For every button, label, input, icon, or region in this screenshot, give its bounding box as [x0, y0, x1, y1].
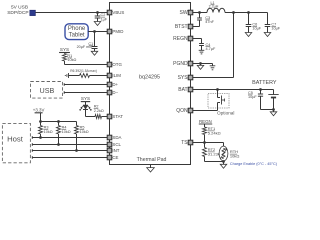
LED D1 cathode bar	[83, 109, 88, 111]
ground (ILIM, sideways)	[65, 73, 68, 78]
resistor R4 leads	[58, 122, 60, 145]
svg-text:SYS: SYS	[178, 75, 189, 81]
resistor R1 leads	[64, 53, 66, 65]
pin D- (left)	[107, 90, 112, 95]
pin TS (right)	[188, 140, 193, 145]
net SYS rail bar	[59, 52, 70, 54]
label R5 value	[80, 130, 89, 134]
resistor R3	[39, 126, 43, 135]
node C6 junction	[247, 11, 250, 14]
label C1	[88, 42, 93, 46]
pin SW (right)	[188, 10, 193, 15]
pin label REGN	[173, 36, 188, 42]
node SYS rail junction	[232, 11, 235, 14]
capacitor C1	[92, 47, 98, 49]
pin label INT	[112, 148, 119, 153]
ground (TS)	[220, 162, 227, 169]
ground (PGND bars)	[210, 64, 216, 70]
pin label SW	[180, 10, 188, 16]
node BAT/C5 junction	[259, 88, 262, 91]
svg-text:BATTERY: BATTERY	[252, 80, 277, 86]
wire BAT net	[193, 89, 274, 91]
ground (C2)	[94, 22, 101, 26]
label R3 value	[44, 130, 53, 134]
pin label SYS	[178, 75, 189, 81]
net SYS rail bar (LED)	[81, 101, 90, 103]
label BATTERY	[252, 80, 277, 86]
pin PMID (left)	[107, 29, 112, 34]
block Phone/Tablet	[65, 24, 88, 40]
pin label QON	[176, 108, 188, 114]
pushbutton S1	[218, 90, 225, 105]
net REGN label	[199, 119, 212, 124]
pin OTG (left)	[107, 62, 112, 67]
resistor R4	[57, 126, 61, 135]
wire resistor to ILIM pin	[90, 75, 108, 77]
svg-text:R6 392(1.5A max): R6 392(1.5A max)	[70, 69, 97, 73]
svg-text:BAT: BAT	[178, 87, 187, 93]
svg-text:D+: D+	[112, 82, 118, 87]
svg-text:20µF min: 20µF min	[77, 45, 92, 49]
pin label PGND	[173, 61, 188, 67]
pin label PMID	[112, 29, 123, 34]
battery BT1	[268, 90, 278, 110]
resistor R6 (RILIM)	[80, 74, 90, 78]
pin label SCL	[112, 142, 121, 147]
resistor RT1 leads	[204, 124, 206, 143]
svg-text:Tablet: Tablet	[69, 33, 85, 39]
pin label CE	[112, 155, 118, 160]
node R4/SCL	[57, 143, 60, 146]
svg-text:Thermal Pad: Thermal Pad	[137, 157, 167, 163]
capacitor C1 leads	[94, 32, 96, 52]
ground (PGND triangle)	[197, 64, 204, 70]
wire CE net	[32, 156, 107, 159]
capacitor C3	[197, 18, 202, 20]
svg-text:2.2kΩ: 2.2kΩ	[94, 109, 104, 113]
label C5 value	[248, 95, 257, 99]
pin ILIM (left)	[107, 73, 112, 78]
capacitor C6 leads	[248, 13, 250, 33]
wire battery bottom	[261, 109, 274, 111]
inductor L1	[207, 8, 225, 12]
node VBUS/C2 junction	[96, 11, 99, 14]
svg-text:SDA: SDA	[112, 135, 121, 140]
wire D- net	[64, 91, 107, 94]
wire SW net	[193, 12, 207, 14]
svg-text:Phone: Phone	[68, 26, 86, 32]
svg-text:47nF: 47nF	[205, 20, 214, 24]
svg-text:SW: SW	[180, 10, 188, 16]
pin label VBUS	[112, 10, 124, 15]
label C5	[248, 91, 253, 95]
capacitor C2	[95, 16, 101, 18]
label USB	[40, 86, 55, 95]
node R5/INT	[75, 149, 78, 152]
svg-text:10kΩ: 10kΩ	[67, 58, 76, 62]
pin label STAT	[112, 114, 123, 119]
ground (thermal pad)	[147, 168, 155, 172]
pin BTST (right)	[188, 24, 193, 29]
node rail/R3	[39, 120, 42, 123]
LED D1 triangle	[83, 105, 88, 109]
svg-text:+3.3V: +3.3V	[33, 107, 45, 112]
label C7	[271, 22, 276, 26]
node SW/C3 junction	[198, 11, 201, 14]
capacitor C4	[199, 44, 204, 46]
svg-text:5V USB: 5V USB	[11, 5, 28, 11]
IC U1 name label	[139, 74, 160, 80]
svg-text:SYS: SYS	[60, 47, 69, 52]
svg-text:INT: INT	[112, 148, 119, 153]
IC U1 bq24295 body	[110, 3, 191, 165]
svg-text:REGN: REGN	[199, 119, 212, 124]
pin label SDA	[112, 135, 121, 140]
svg-text:TS: TS	[181, 140, 188, 146]
svg-text:10kΩ: 10kΩ	[80, 130, 89, 134]
label Charge Enable	[230, 162, 278, 166]
node thermistor/ground junction	[222, 160, 225, 163]
pin label OTG	[112, 62, 122, 67]
label RT2	[208, 147, 216, 152]
label C2	[101, 13, 106, 17]
svg-text:VBUS: VBUS	[112, 10, 124, 15]
wire LED to R2	[86, 110, 96, 117]
net +3.3V label	[33, 107, 45, 112]
svg-text:BTST: BTST	[175, 24, 188, 30]
pin label ILIM	[112, 73, 121, 78]
capacitor C4 leads	[193, 39, 202, 51]
label C4 value	[206, 47, 216, 51]
label R6 value	[70, 69, 97, 73]
wire INT net	[32, 149, 107, 152]
pin D+ (left)	[107, 82, 112, 87]
label R3	[44, 126, 49, 130]
pin label TS	[181, 140, 188, 146]
label Tablet	[69, 33, 85, 39]
net REGN underline	[199, 123, 212, 125]
svg-text:10kΩ: 10kΩ	[62, 130, 71, 134]
label R4 value	[62, 130, 71, 134]
svg-text:2.2µH: 2.2µH	[209, 4, 219, 8]
wire L1 to output node	[225, 12, 268, 14]
label C1 value	[77, 45, 92, 49]
capacitor C7 leads	[267, 13, 269, 33]
svg-text:SDP/DCP: SDP/DCP	[7, 10, 28, 16]
capacitor C3 leads	[193, 13, 200, 27]
pin CE (left)	[107, 155, 112, 160]
LED D1 emission arrows	[80, 106, 92, 111]
block USB (dashed)	[31, 82, 63, 99]
wire pullup rail	[41, 121, 77, 123]
pin label D-	[112, 90, 118, 95]
capacitor C5 leads	[260, 90, 262, 110]
label R1 value	[67, 58, 76, 62]
ground (C1)	[91, 51, 98, 55]
capacitor C6	[246, 25, 252, 27]
node TS/RT2 junction	[203, 141, 206, 144]
label RT1	[208, 126, 216, 131]
svg-text:SCL: SCL	[112, 142, 121, 147]
wire OTG net	[65, 64, 108, 66]
label R4	[62, 126, 67, 130]
thermistor RTH leads	[223, 143, 225, 162]
resistor RT2 leads	[204, 143, 206, 162]
pin BAT (right)	[188, 87, 193, 92]
pin label BAT	[178, 87, 187, 93]
pin label BTST	[175, 24, 188, 30]
pin VBUS (left)	[107, 10, 112, 15]
svg-text:4.7µF: 4.7µF	[206, 47, 216, 51]
pin SDA (left)	[107, 135, 112, 140]
wire SDA net	[32, 136, 107, 139]
svg-text:10µF: 10µF	[271, 27, 280, 31]
pin INT (left)	[107, 148, 112, 153]
node R3/SDA	[39, 136, 42, 139]
label R2	[94, 105, 99, 109]
label C6 value	[252, 27, 261, 31]
label C2 value	[101, 17, 108, 21]
node rail/R4	[57, 120, 60, 123]
wire R2 to STAT pin	[102, 116, 108, 118]
node PGND junction	[199, 62, 202, 65]
label RT2 value	[208, 151, 223, 156]
ground (C6)	[245, 33, 252, 37]
label L1	[211, 1, 215, 5]
label RTH value	[230, 154, 239, 159]
label R2 value	[94, 109, 104, 113]
pin PGND (right)	[188, 61, 193, 66]
capacitor C2 leads	[97, 13, 99, 22]
wire PGND net	[193, 63, 213, 65]
net SYS (OTG pullup) label	[60, 47, 69, 52]
svg-text:ILIM: ILIM	[112, 73, 121, 78]
USB input connector (blue square)	[30, 10, 36, 15]
wire SYS net	[193, 13, 234, 78]
wire +3.3V stem	[40, 113, 42, 122]
label RTH	[230, 149, 238, 154]
svg-text:Charge Enable (0°C - 45°C): Charge Enable (0°C - 45°C)	[230, 162, 278, 166]
svg-text:10kΩ: 10kΩ	[44, 130, 53, 134]
svg-text:CE: CE	[112, 155, 118, 160]
pin QON (right)	[188, 108, 193, 113]
ground (battery)	[270, 110, 277, 116]
node PMID/C1 junction	[93, 30, 96, 33]
wire TS bottom	[205, 161, 224, 163]
label RT1 value	[208, 130, 221, 135]
block Optional (dashed)	[208, 94, 229, 109]
wire TS net	[193, 142, 224, 144]
wire PMID net	[88, 31, 107, 33]
ground (C4)	[199, 50, 205, 54]
node BAT/button junction	[216, 88, 219, 91]
label C6	[252, 22, 257, 26]
svg-text:Optional: Optional	[217, 110, 234, 115]
svg-text:5.24kΩ: 5.24kΩ	[208, 130, 221, 135]
svg-text:D−: D−	[112, 90, 118, 95]
pin STAT (left)	[107, 114, 112, 119]
label C3	[205, 16, 210, 20]
node battery/ground junction	[272, 108, 275, 111]
label R5	[80, 126, 85, 130]
pin REGN (right)	[188, 36, 193, 41]
pin SYS (right)	[188, 75, 193, 80]
svg-text:PMID: PMID	[112, 29, 123, 34]
svg-text:QON: QON	[176, 108, 188, 114]
resistor RT1	[203, 127, 207, 135]
label SDP/DCP	[7, 10, 28, 16]
svg-text:STAT: STAT	[112, 114, 123, 119]
net +3.3V rail bar	[35, 112, 43, 114]
svg-text:Host: Host	[7, 135, 24, 144]
resistor RT2	[203, 148, 207, 157]
wire D+ net	[64, 83, 107, 86]
label Phone	[68, 26, 86, 32]
label C7 value	[271, 27, 280, 31]
label C4	[206, 43, 211, 47]
svg-text:REGN: REGN	[173, 36, 188, 42]
svg-text:SYS: SYS	[81, 96, 90, 101]
svg-text:USB: USB	[40, 86, 55, 95]
svg-text:10kΩ: 10kΩ	[230, 154, 239, 159]
svg-text:OTG: OTG	[112, 62, 122, 67]
resistor R1	[63, 54, 67, 62]
net SYS (LED) label	[81, 96, 90, 101]
wire SCL net	[32, 143, 107, 146]
wire QON net	[193, 103, 218, 111]
svg-text:PGND: PGND	[173, 61, 188, 67]
thermistor RTH	[219, 146, 228, 161]
resistor R2	[95, 115, 102, 119]
svg-text:10µF: 10µF	[248, 95, 257, 99]
capacitor C7	[265, 25, 271, 27]
label 5V USB	[11, 5, 28, 11]
svg-text:bq24295: bq24295	[139, 74, 160, 80]
block Host (dashed)	[2, 123, 30, 162]
wire thermal pad stem	[150, 165, 152, 168]
pin SCL (left)	[107, 142, 112, 147]
svg-text:1µF: 1µF	[101, 17, 108, 21]
label Optional	[217, 110, 234, 115]
resistor R5 leads	[76, 122, 78, 151]
wire ILIM to resistor	[69, 75, 80, 77]
wire VBUS net	[36, 12, 108, 14]
label R1	[67, 54, 72, 58]
resistor R5	[75, 126, 79, 135]
label Host	[7, 135, 24, 144]
thermal pad label	[137, 157, 167, 163]
ground (C7)	[264, 33, 271, 37]
capacitor C5	[258, 94, 263, 96]
svg-text:10µF: 10µF	[252, 27, 261, 31]
label L1 value	[209, 4, 219, 8]
label C3 value	[205, 20, 214, 24]
pin label D+	[112, 82, 118, 87]
resistor R3 leads	[40, 122, 42, 138]
LED D1 anode lead	[85, 102, 87, 105]
